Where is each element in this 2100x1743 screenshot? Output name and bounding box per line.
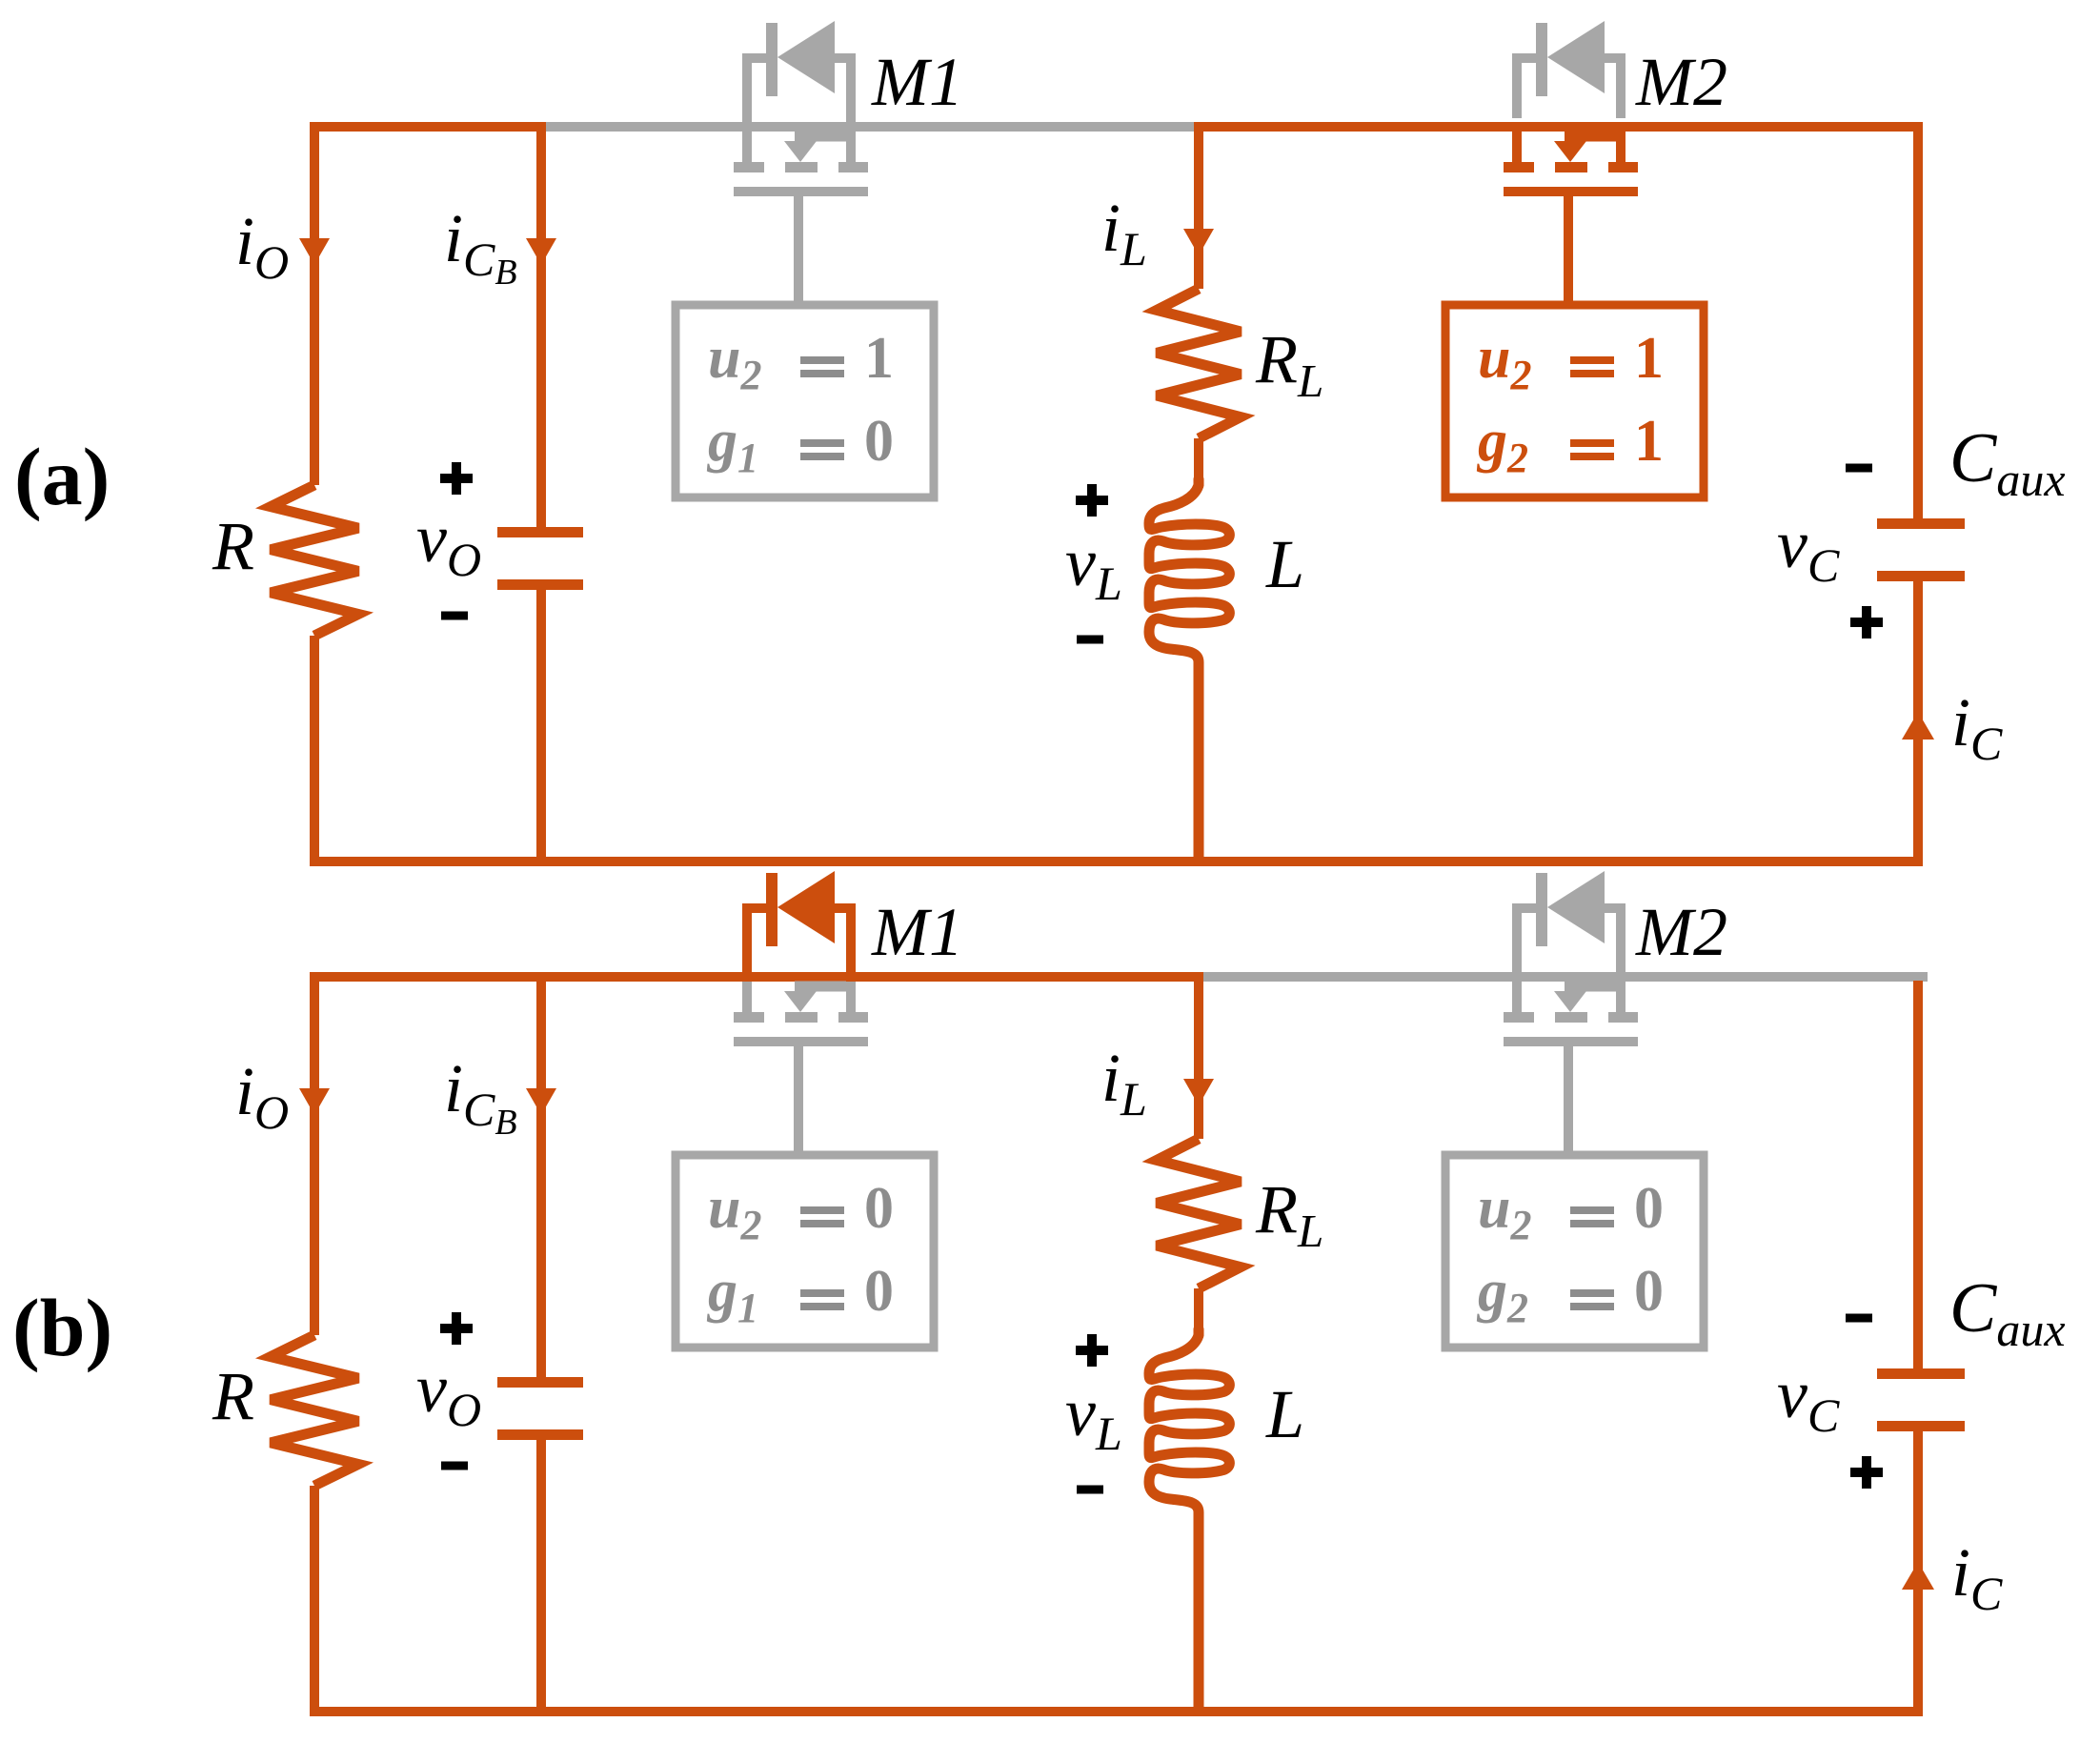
label v_L (b) [1065,1374,1122,1460]
label M2 (a) [1635,44,1727,120]
current arrow i_C (b) [1902,1562,1934,1590]
svg-text:vL: vL [1065,1374,1122,1460]
minus sign v_L (b) [1077,1486,1103,1494]
wire: (b) R branch upper segment [310,972,319,1335]
wire: (b) segment between R_L and L [1194,1288,1203,1338]
current arrow i_O (a) [299,238,330,265]
plus sign v_C (b) [1850,1456,1883,1489]
wire: (a) top rail, R branch to C_B branch node (orange) [310,122,546,132]
svg-text:M1: M1 [871,894,963,970]
wire: (b) C_B branch lower segment [536,1437,546,1716]
wire: (a) R branch upper segment [310,122,319,485]
svg-text:vC: vC [1777,506,1840,592]
svg-text:iCB: iCB [444,200,517,293]
svg-text:u2: u2 [708,326,761,398]
wire: (b) top rail through M1 body-diode path (orange) [310,972,1194,982]
transistor M1 symbol (b) [734,982,868,1159]
transistor M1 body diode (b) [742,871,856,972]
resistor R (a) [271,485,358,636]
label v_C (b) [1777,1356,1840,1442]
label M2 (b) [1635,894,1727,970]
svg-text:R: R [212,508,254,584]
wire: (b) C_aux branch upper segment [1913,981,1923,1374]
gate condition box M1 (a): u2 = 1, g1 = 0 [676,305,934,497]
current arrow i_L (a) [1183,229,1214,255]
label v_C (a) [1777,506,1840,592]
svg-text:u2: u2 [1478,1176,1531,1248]
current arrow i_O (b) [299,1088,330,1115]
wire: (a) inductor branch upper segment [1194,122,1203,289]
svg-text:vO: vO [416,1350,481,1436]
svg-text:RL: RL [1255,321,1323,407]
gate condition box M2 (b): u2 = 0, g2 = 0 [1445,1155,1704,1348]
svg-text:g2: g2 [1476,1259,1528,1331]
current arrow i_C (a) [1902,712,1934,740]
inductor L (a) [1149,479,1229,861]
svg-text:g2: g2 [1476,409,1528,481]
label i_C (b) [1951,1534,2003,1620]
wire: (a) C_aux branch lower segment [1913,581,1923,866]
transistor M1 body diode (a) [742,21,856,122]
current arrow i_L (b) [1183,1079,1214,1105]
current arrow i_CB (b) [526,1088,556,1115]
minus sign v_O (a) [441,612,468,620]
label i_CB (b) [444,1050,517,1143]
svg-text:Caux: Caux [1949,419,2066,506]
svg-text:M1: M1 [871,44,963,120]
capacitor C_aux (a) [1877,524,1965,577]
resistor R_L (a) [1157,289,1241,438]
wire: (b) inductor branch upper segment [1194,972,1203,1139]
plus sign v_C (a) [1850,606,1883,638]
capacitor C_aux (b) [1877,1374,1965,1427]
wire: (b) top rail through M2, blocking path (gray) [1194,972,1928,982]
label L (b) [1265,1376,1304,1452]
gate condition box M2 (a): u2 = 1, g2 = 1 [1445,305,1704,497]
minus sign v_L (a) [1077,636,1103,644]
svg-text:iL: iL [1101,190,1147,275]
svg-text:u2: u2 [708,1176,761,1248]
inductor L (b) [1149,1329,1229,1711]
transistor M2 symbol (a) [1504,132,1638,309]
gate condition box M1 (b): u2 = 0, g1 = 0 [676,1155,934,1348]
svg-text:RL: RL [1255,1171,1323,1257]
wire: (b) C_B branch upper segment [536,972,546,1380]
wire: (a) segment between R_L and L [1194,438,1203,488]
label i_C (a) [1951,684,2003,770]
svg-text:0: 0 [864,1259,894,1324]
label L (a) [1265,526,1304,602]
label R_L (b) [1255,1171,1323,1257]
svg-text:M2: M2 [1635,894,1727,970]
wire: (a) top rail through M2 to C_aux branch (orange) [1194,122,1923,132]
svg-text:0: 0 [1634,1176,1664,1241]
svg-text:1: 1 [864,326,894,391]
transistor M2 symbol (b) [1504,982,1638,1159]
svg-text:g1: g1 [706,409,758,481]
svg-text:iC: iC [1951,1534,2003,1620]
svg-text:(a): (a) [14,431,110,522]
wire: (a) top rail through M1, blocking path (gray) [546,122,1194,132]
label i_L (a) [1101,190,1147,275]
svg-text:vC: vC [1777,1356,1840,1442]
minus sign v_O (b) [441,1462,468,1470]
wire: (a) C_B branch upper segment [536,122,546,530]
minus sign v_C (a) [1846,464,1872,473]
transistor M1 symbol (a) [734,132,868,309]
label R (a) [212,508,254,584]
label M1 (a) [871,44,963,120]
plus sign v_L (b) [1076,1334,1108,1367]
subfigure label (b) [12,1282,112,1373]
svg-text:M2: M2 [1635,44,1727,120]
label C_aux (a) [1949,419,2066,506]
capacitor C_B / v_O (a) [497,533,583,585]
wire: (b) R branch lower segment [310,1486,319,1716]
wire: (b) C_aux branch lower segment [1913,1431,1923,1716]
label i_O (a) [235,203,289,289]
resistor R (b) [271,1335,358,1486]
label i_CB (a) [444,200,517,293]
wire: (a) bottom return rail [310,857,1923,866]
svg-text:R: R [212,1358,254,1434]
svg-text:g1: g1 [706,1259,758,1331]
svg-text:L: L [1265,526,1304,602]
svg-text:iO: iO [235,1053,289,1139]
resistor R_L (b) [1157,1139,1241,1288]
svg-text:vO: vO [416,500,481,586]
label R (b) [212,1358,254,1434]
svg-text:iC: iC [1951,684,2003,770]
label i_O (b) [235,1053,289,1139]
svg-text:1: 1 [1634,326,1664,391]
wire: (b) bottom return rail [310,1707,1923,1716]
svg-text:iL: iL [1101,1040,1147,1125]
label i_L (b) [1101,1040,1147,1125]
svg-text:iCB: iCB [444,1050,517,1143]
plus sign v_L (a) [1076,484,1108,517]
transistor M2 body diode (b) [1512,871,1625,972]
plus sign v_O (b) [440,1312,473,1345]
svg-text:L: L [1265,1376,1304,1452]
svg-text:0: 0 [864,1176,894,1241]
svg-text:0: 0 [864,409,894,474]
capacitor C_B / v_O (b) [497,1383,583,1435]
wire: (a) C_B branch lower segment [536,587,546,866]
transistor M2 body diode (a) [1512,21,1625,118]
svg-text:(b): (b) [12,1282,112,1373]
wire: (a) C_aux branch upper segment [1913,122,1923,524]
label v_O (b) [416,1350,481,1436]
svg-text:0: 0 [1634,1259,1664,1324]
current arrow i_CB (a) [526,238,556,265]
svg-text:iO: iO [235,203,289,289]
label C_aux (b) [1949,1269,2066,1356]
minus sign v_C (b) [1846,1314,1872,1323]
wire: (a) R branch lower segment [310,636,319,866]
label M1 (b) [871,894,963,970]
label v_L (a) [1065,524,1122,610]
label v_O (a) [416,500,481,586]
plus sign v_O (a) [440,462,473,495]
label R_L (a) [1255,321,1323,407]
svg-text:vL: vL [1065,524,1122,610]
subfigure label (a) [14,431,110,522]
svg-text:u2: u2 [1478,326,1531,398]
svg-text:1: 1 [1634,409,1664,474]
svg-text:Caux: Caux [1949,1269,2066,1356]
